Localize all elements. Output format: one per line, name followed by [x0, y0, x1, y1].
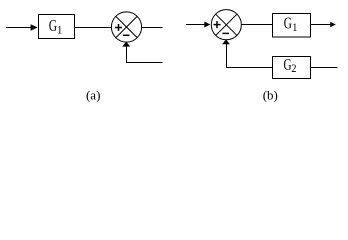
arrowhead: input into block G1 (a) — [31, 24, 38, 31]
block G2 (b) — [273, 56, 311, 79]
minus sign (a) — [123, 34, 130, 36]
wire: feedback vertical segment (a) — [126, 46, 128, 62]
wire: output of summing junction (a) — [142, 27, 163, 29]
wire+arrowhead: output of diagram (b) — [311, 24, 331, 26]
block G1 (a) — [39, 15, 75, 39]
arrowhead: feedback into summing junction (a) — [122, 42, 130, 47]
diagonal NE-SW of summing junction (a) — [116, 17, 137, 38]
svg-text:G: G — [284, 14, 292, 33]
svg-text:G: G — [284, 56, 292, 75]
minus sign (b) — [222, 32, 229, 34]
svg-text:1: 1 — [292, 21, 297, 34]
arrowhead: input into summing junction (b) — [204, 22, 210, 28]
plus sign (a) — [115, 24, 122, 31]
block G1 (b) — [273, 14, 311, 38]
wire: feedback vertical segment (b) — [226, 44, 228, 68]
wire: input of diagram (b) — [186, 24, 205, 26]
summing junction circle (b) — [211, 10, 241, 40]
wire: right of block G2 (b) — [311, 67, 338, 69]
summing junction circle (a) — [111, 12, 141, 42]
wire: block G1 to summing junction (a) — [75, 27, 112, 29]
wire: summing junction to block G1 (b) — [241, 24, 272, 26]
wire: input of diagram (a) — [6, 27, 32, 29]
svg-text:2: 2 — [291, 63, 296, 76]
svg-text:G: G — [49, 17, 57, 36]
svg-text:1: 1 — [57, 24, 62, 37]
diagonal NE-SW of summing junction (b) — [216, 14, 237, 35]
svg-text:(a): (a) — [86, 88, 100, 103]
diagonal NW-SE of summing junction (b) — [216, 14, 237, 35]
wire: feedback horizontal segment (b) — [226, 67, 273, 69]
wire: feedback horizontal segment (a) — [126, 62, 163, 64]
svg-text:(b): (b) — [263, 88, 278, 103]
arrowhead: feedback into summing junction (b) — [222, 40, 230, 45]
plus sign (b) — [214, 21, 221, 28]
diagonal NW-SE of summing junction (a) — [116, 17, 137, 38]
